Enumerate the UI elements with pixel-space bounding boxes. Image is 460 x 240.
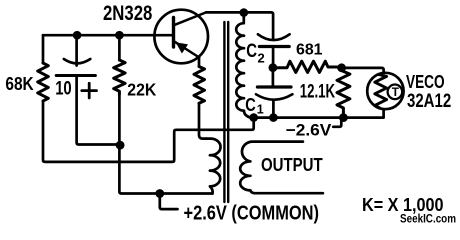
svg-text:12.1K: 12.1K — [300, 81, 335, 102]
wire 22K bottom lead to common rail — [119, 94, 212, 194]
wire 68K top lead — [42, 35, 45, 63]
wire base rail — [43, 34, 172, 37]
wire C2 bottom lead — [272, 47, 275, 68]
svg-text:T: T — [392, 85, 400, 99]
wire 10uF bottom lead — [77, 77, 120, 145]
transistor emitter arrow — [176, 42, 188, 53]
svg-text:K= X 1,000: K= X 1,000 — [362, 194, 444, 215]
svg-text:22K: 22K — [127, 79, 156, 99]
svg-text:C: C — [246, 40, 257, 62]
svg-text:SeekIC.com: SeekIC.com — [400, 213, 456, 225]
node dot base-10uF — [73, 31, 82, 40]
transistor collector stroke — [175, 12, 206, 24]
wire C1 top lead — [272, 68, 275, 87]
transistor emitter stroke — [175, 42, 199, 58]
node dot C2-681 — [269, 63, 278, 72]
svg-text:C: C — [245, 94, 256, 115]
wire -2.6V label elbow — [333, 118, 341, 127]
node dot base-22K — [115, 31, 124, 40]
node dot common rail — [155, 189, 164, 198]
capacitor C1 curved plate — [256, 94, 292, 99]
svg-text:+2.6V (COMMON): +2.6V (COMMON) — [184, 203, 320, 225]
wire 22K top lead — [118, 35, 121, 60]
resistor 12.1K — [337, 68, 350, 118]
emitter resistor — [194, 67, 205, 104]
resistor 681 — [273, 61, 342, 72]
wire 10uF top lead — [75, 35, 78, 65]
svg-text:32A12: 32A12 — [407, 90, 451, 112]
wire top rail to thermistor — [342, 68, 384, 73]
wire bottom -2.6V rail — [254, 110, 384, 117]
transformer secondary OUTPUT winding W3 — [240, 142, 323, 194]
resistor 68K — [38, 63, 49, 101]
thermistor VECO 32A12 circle — [367, 73, 403, 109]
plus sign of 10uF — [82, 83, 97, 98]
capacitor C2 curved plate — [258, 34, 290, 40]
wire collector top — [206, 12, 273, 39]
transformer core — [224, 22, 228, 202]
wire 68K bottom to tank winding bottom node — [43, 101, 254, 162]
svg-text:OUTPUT: OUTPUT — [261, 154, 323, 175]
svg-text:1: 1 — [257, 103, 264, 117]
capacitor 10uF straight plate — [56, 74, 95, 77]
node dot tank bottom — [249, 113, 258, 122]
capacitor 10uF curved plate — [64, 59, 91, 63]
resistor 22K — [114, 60, 125, 94]
svg-text:2N328: 2N328 — [103, 2, 152, 25]
node dot 12.1K bottom — [339, 113, 348, 122]
capacitor C2 straight plate — [259, 45, 289, 48]
node dot 10uF-22K — [116, 141, 125, 150]
node dot collector-tank top — [240, 8, 249, 17]
capacitor C1 straight plate — [257, 85, 291, 88]
transformer primary winding W2 — [206, 139, 221, 194]
svg-text:10: 10 — [55, 77, 71, 99]
svg-text:−2.6V: −2.6V — [286, 122, 332, 140]
transistor base bar — [172, 18, 175, 48]
thermistor T circle — [388, 85, 403, 100]
svg-text:2: 2 — [258, 51, 265, 66]
wire +2.6V stub — [160, 194, 178, 210]
wire C1 bottom lead — [272, 101, 275, 118]
node dot C1 bottom — [269, 113, 278, 122]
wire emitter lead — [198, 58, 201, 67]
transistor Q1 2N328 circle — [154, 10, 208, 64]
node dot 681-12.1K — [337, 63, 346, 72]
svg-text:68K: 68K — [5, 73, 34, 94]
thermistor zigzag — [375, 75, 387, 108]
wire emitter resistor to primary winding — [199, 103, 206, 138]
transformer tank winding W1 — [236, 13, 254, 118]
svg-text:681: 681 — [296, 42, 323, 59]
